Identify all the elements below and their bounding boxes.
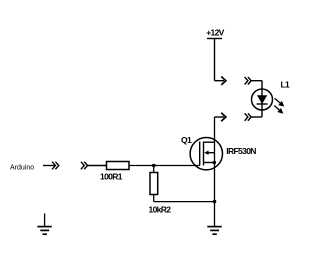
- svg-text:Arduino: Arduino: [10, 164, 34, 171]
- svg-text:+12V: +12V: [206, 28, 224, 38]
- svg-text:10kR2: 10kR2: [149, 205, 172, 215]
- svg-text:100R1: 100R1: [100, 172, 123, 182]
- svg-text:L1: L1: [281, 80, 291, 90]
- svg-text:Q1: Q1: [181, 135, 192, 145]
- svg-text:IRF530N: IRF530N: [226, 146, 256, 156]
